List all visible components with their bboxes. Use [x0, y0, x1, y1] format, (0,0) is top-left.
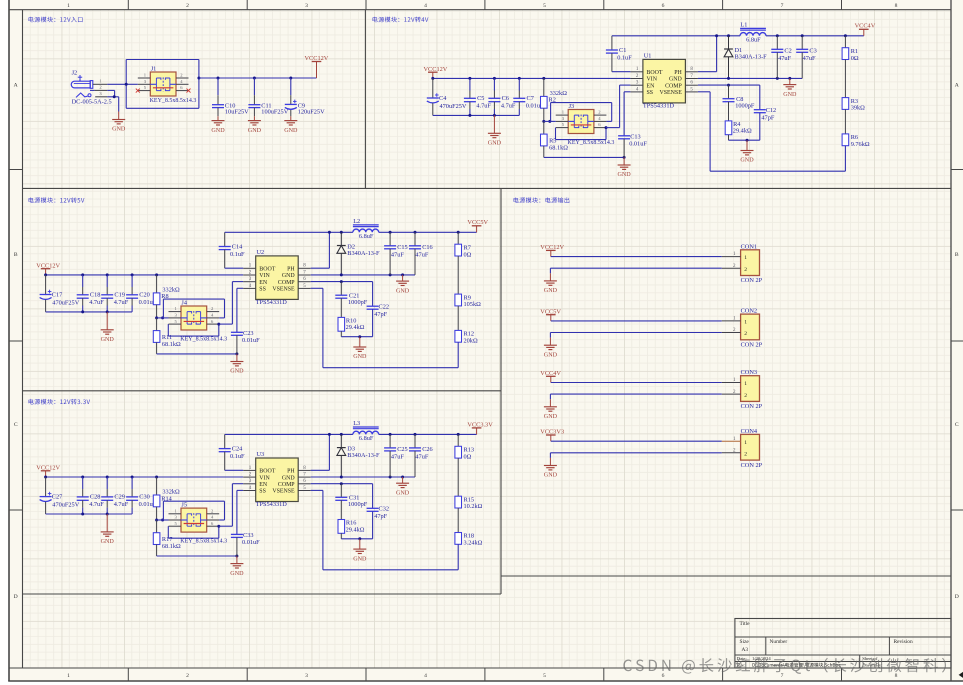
svg-text:VCC3.3V: VCC3.3V	[467, 421, 493, 428]
wire VSENSE feedback loop	[457, 342, 459, 368]
capacitor C16	[409, 232, 433, 275]
junction	[253, 77, 256, 80]
wire	[844, 109, 846, 133]
svg-text:470uF25V: 470uF25V	[52, 502, 79, 509]
power VCC12V	[36, 465, 60, 477]
junction	[217, 323, 220, 326]
svg-text:D: D	[14, 594, 18, 600]
junction	[788, 77, 791, 80]
junction	[548, 120, 551, 123]
junction	[776, 34, 779, 37]
switch J4	[169, 299, 228, 342]
svg-text:0Ω: 0Ω	[851, 55, 859, 62]
svg-text:C: C	[14, 422, 18, 428]
svg-text:2: 2	[744, 267, 747, 273]
capacitor C26	[409, 434, 433, 477]
svg-text:PH: PH	[287, 267, 295, 273]
svg-text:VCC4V: VCC4V	[855, 23, 876, 30]
svg-text:J3: J3	[569, 103, 575, 110]
svg-text:C14: C14	[232, 244, 243, 251]
svg-text:CON1: CON1	[741, 243, 757, 250]
svg-text:C2: C2	[784, 47, 791, 54]
svg-text:29.4kΩ: 29.4kΩ	[346, 526, 365, 533]
svg-text:C1: C1	[619, 47, 626, 54]
svg-text:GND: GND	[112, 127, 126, 133]
junction	[358, 335, 361, 338]
junction	[776, 77, 779, 80]
resistor R9	[455, 294, 481, 308]
svg-text:VSENSE: VSENSE	[272, 287, 295, 293]
svg-text:B340A-13-F: B340A-13-F	[347, 250, 380, 257]
svg-text:B340A-13-F: B340A-13-F	[347, 452, 380, 459]
wire PH switch-node rail	[612, 35, 740, 37]
capacitor C14	[219, 232, 245, 268]
wire COMP ground branch	[729, 139, 760, 141]
ground	[396, 275, 410, 294]
svg-text:C19: C19	[114, 292, 125, 299]
junction	[81, 273, 84, 276]
svg-text:10.2kΩ: 10.2kΩ	[464, 503, 483, 510]
svg-text:47uF: 47uF	[778, 55, 791, 62]
capacitor C10	[212, 78, 249, 116]
svg-text:B: B	[955, 252, 959, 258]
power VCC12V	[305, 55, 329, 78]
svg-text:3: 3	[305, 3, 308, 9]
wire	[844, 60, 846, 98]
svg-text:KEY_8.5x8.5x14.3: KEY_8.5x8.5x14.3	[568, 140, 615, 146]
ground	[740, 140, 754, 164]
title block	[735, 619, 951, 669]
junction	[605, 126, 608, 129]
svg-text:C20: C20	[139, 292, 150, 299]
svg-text:29.4kΩ: 29.4kΩ	[733, 128, 752, 135]
wire CON2 pin2 to ground	[550, 332, 721, 334]
junction	[328, 433, 331, 436]
wire output divider column	[457, 232, 459, 244]
wire SS net	[624, 91, 630, 93]
svg-text:KEY_8.5x8.5x14.3: KEY_8.5x8.5x14.3	[150, 98, 197, 104]
resistor R7	[455, 244, 472, 258]
wire PH switch-node rail	[225, 433, 353, 435]
junction	[389, 231, 392, 234]
wire VCC4V to CON3 pin1	[551, 382, 722, 384]
svg-text:10uF25V: 10uF25V	[225, 109, 249, 116]
op-amp U3 TPS54331D	[243, 451, 311, 508]
junction	[106, 310, 109, 313]
svg-text:0.01uF: 0.01uF	[629, 140, 647, 147]
svg-text:VSENSE: VSENSE	[272, 489, 295, 495]
svg-text:GND: GND	[669, 77, 683, 83]
svg-text:4.7uF: 4.7uF	[89, 501, 104, 508]
resistor R4	[725, 121, 752, 140]
op-amp U1 TPS54331D	[630, 52, 698, 109]
junction	[340, 280, 343, 283]
svg-text:6: 6	[662, 3, 665, 9]
svg-text:5: 5	[543, 3, 546, 9]
power VCC3V3	[540, 429, 564, 442]
wire KEY bottom loop	[555, 128, 557, 140]
ground	[101, 312, 115, 343]
svg-text:VCC5V: VCC5V	[540, 308, 561, 315]
wire VCC5V to CON2 pin1	[551, 320, 722, 322]
svg-text:GND: GND	[230, 571, 244, 577]
svg-text:C26: C26	[422, 446, 433, 453]
svg-text:BOOT: BOOT	[647, 70, 663, 76]
wire KEY J1 top loop	[126, 59, 199, 61]
capacitor C21	[335, 282, 367, 318]
junction	[358, 537, 361, 540]
svg-text:GND: GND	[396, 288, 410, 294]
resistor R5	[541, 121, 569, 157]
junction	[727, 84, 730, 87]
capacitor C9	[285, 78, 325, 116]
resistor R3	[842, 98, 865, 112]
svg-text:100uF25V: 100uF25V	[261, 109, 288, 116]
svg-text:GND: GND	[544, 473, 558, 479]
wire VCC12V input rail	[46, 274, 244, 276]
svg-text:J4: J4	[181, 299, 187, 306]
svg-text:1: 1	[744, 255, 747, 261]
junction	[155, 273, 158, 276]
wire KEY J1 bottom loop	[126, 107, 199, 109]
svg-text:29.4kΩ: 29.4kΩ	[346, 324, 365, 331]
svg-text:6: 6	[662, 673, 665, 679]
svg-text:470uF25V: 470uF25V	[440, 103, 467, 110]
svg-text:BOOT: BOOT	[259, 267, 275, 273]
svg-text:EN: EN	[259, 280, 268, 286]
svg-text:R1: R1	[851, 48, 858, 55]
ground	[248, 116, 262, 134]
wire power ground row	[311, 476, 415, 478]
capacitor C17	[40, 275, 80, 312]
wire input cap ground bus	[46, 513, 133, 515]
junction	[542, 120, 545, 123]
svg-text:C28: C28	[90, 494, 101, 501]
junction	[81, 476, 84, 479]
svg-text:VIN: VIN	[259, 273, 270, 279]
svg-text:8: 8	[895, 3, 898, 9]
power VCC12V	[424, 66, 448, 78]
junction	[44, 273, 47, 276]
svg-text:C6: C6	[502, 95, 509, 102]
wire KEY top loop	[163, 500, 224, 502]
power VCC5V	[467, 219, 488, 232]
power VCC4V	[855, 23, 876, 36]
wire VCC12V to CON1 pin1	[551, 256, 722, 258]
junction	[457, 231, 460, 234]
svg-text:R11: R11	[162, 334, 172, 341]
wire output divider column	[844, 36, 846, 48]
wire VSENSE feedback loop	[457, 544, 459, 570]
wire CON3 pin2 to ground	[550, 393, 721, 395]
svg-text:SS: SS	[259, 489, 266, 495]
svg-text:68.1kΩ: 68.1kΩ	[162, 341, 181, 348]
ground	[353, 539, 367, 563]
svg-text:4.7uF: 4.7uF	[476, 102, 491, 109]
svg-text:Size: Size	[740, 639, 750, 645]
svg-text:470uF25V: 470uF25V	[52, 300, 79, 307]
resistor R15	[455, 496, 483, 510]
svg-text:47pF: 47pF	[374, 311, 387, 318]
svg-text:L1: L1	[740, 21, 747, 28]
svg-text:CON 2P: CON 2P	[741, 403, 763, 410]
svg-text:C29: C29	[114, 494, 125, 501]
svg-text:DC-005-5A-2.5: DC-005-5A-2.5	[72, 99, 112, 106]
wire BOOT net	[225, 469, 244, 471]
junction	[542, 77, 545, 80]
svg-text:120uF25V: 120uF25V	[298, 109, 325, 116]
svg-text:2: 2	[186, 673, 189, 679]
junction	[289, 77, 292, 80]
capacitor C28	[77, 477, 105, 514]
svg-text:CON 2P: CON 2P	[741, 277, 763, 284]
svg-text:KEY_8.5x8.5x14.3: KEY_8.5x8.5x14.3	[180, 336, 227, 342]
svg-text:6.8uF: 6.8uF	[359, 233, 374, 240]
connector CON3	[722, 369, 763, 410]
junction	[414, 231, 417, 234]
wire SS net	[237, 287, 243, 289]
junction	[131, 273, 134, 276]
svg-text:C18: C18	[90, 292, 101, 299]
ground	[211, 116, 225, 134]
svg-text:C25: C25	[397, 446, 408, 453]
capacitor C27	[40, 477, 80, 514]
power VCC3.3V	[467, 421, 493, 434]
svg-text:4: 4	[424, 673, 427, 679]
wire power ground row	[698, 77, 802, 79]
watermark	[623, 658, 946, 674]
wire EN net	[219, 525, 233, 527]
svg-text:Revision: Revision	[894, 639, 913, 645]
wire PH switch-node rail	[225, 231, 353, 233]
svg-text:TPS54331D: TPS54331D	[256, 299, 288, 306]
ground	[396, 477, 410, 496]
capacitor C20	[126, 275, 157, 312]
module titles	[29, 17, 83, 23]
capacitor C1	[606, 36, 632, 72]
resistor R2	[541, 78, 568, 121]
wire output divider column	[457, 434, 459, 446]
svg-text:J2: J2	[72, 70, 78, 77]
svg-text:C15: C15	[397, 244, 408, 251]
svg-text:BOOT: BOOT	[259, 469, 275, 475]
svg-text:8: 8	[895, 673, 898, 679]
wire input cap ground bus	[46, 311, 133, 313]
svg-text:EN: EN	[647, 83, 656, 89]
svg-text:GND: GND	[488, 141, 502, 147]
wire SS/enable ground bus	[157, 555, 237, 557]
svg-text:GND: GND	[284, 128, 298, 134]
wire KEY bottom loop	[167, 526, 169, 538]
capacitor C11	[248, 78, 288, 116]
wire SS/enable ground bus	[544, 156, 624, 158]
svg-text:5: 5	[543, 673, 546, 679]
svg-text:GND: GND	[544, 352, 558, 358]
svg-text:R5: R5	[549, 137, 556, 144]
connector CON1	[722, 243, 763, 284]
junction	[468, 114, 471, 117]
wire VCC12V input rail	[46, 476, 244, 478]
svg-text:L3: L3	[353, 420, 360, 427]
svg-text:7: 7	[781, 673, 784, 679]
junction	[518, 77, 521, 80]
svg-text:SS: SS	[647, 90, 654, 96]
wire power ground row	[311, 274, 415, 276]
svg-text:L2: L2	[353, 218, 360, 225]
junction	[389, 433, 392, 436]
wire CON1 pin2 to ground	[550, 267, 721, 269]
svg-text:4: 4	[424, 3, 427, 9]
junction	[623, 156, 626, 159]
wire	[457, 458, 459, 496]
no-ERC marks on J1 pins 5,6	[136, 89, 140, 93]
svg-text:C24: C24	[232, 446, 243, 453]
svg-text:2: 2	[744, 393, 747, 399]
ground	[544, 458, 558, 479]
svg-text:4.7uF: 4.7uF	[114, 501, 129, 508]
svg-text:SS: SS	[259, 287, 266, 293]
svg-text:KEY_8.5x8.5x14.3: KEY_8.5x8.5x14.3	[180, 539, 227, 545]
capacitor C3	[796, 36, 817, 79]
junction	[217, 525, 220, 528]
svg-text:Drawn By:: Drawn By:	[862, 663, 882, 668]
svg-text:VIN: VIN	[647, 77, 658, 83]
svg-text:C22: C22	[379, 303, 390, 310]
capacitor C18	[77, 275, 105, 312]
svg-text:0.1uF: 0.1uF	[617, 54, 632, 61]
wire COMP net	[311, 281, 373, 283]
capacitor C6	[488, 78, 516, 115]
ground	[783, 78, 797, 97]
svg-text:3: 3	[305, 673, 308, 679]
svg-text:47uF: 47uF	[415, 454, 428, 461]
svg-text:TPS54331D: TPS54331D	[643, 102, 675, 109]
capacitor C19	[101, 275, 129, 312]
junction	[217, 77, 220, 80]
svg-text:TPS54331D: TPS54331D	[256, 501, 288, 508]
wire CON4 pin2 to ground	[550, 452, 721, 454]
svg-text:GND: GND	[353, 556, 367, 562]
svg-text:U1: U1	[644, 52, 652, 59]
wire SS/enable ground bus	[157, 353, 237, 355]
junction	[106, 273, 109, 276]
junction	[106, 513, 109, 516]
svg-text:47pF: 47pF	[761, 114, 774, 121]
svg-text:CON4: CON4	[741, 428, 758, 435]
inductor L3	[353, 420, 379, 442]
frame reference ticks	[127, 0, 129, 10]
resistor R12	[455, 330, 478, 344]
wire KEY top loop	[551, 102, 612, 104]
svg-text:1000pF: 1000pF	[735, 103, 755, 110]
junction	[493, 114, 496, 117]
wire COMP net	[311, 483, 373, 485]
svg-text:C3: C3	[809, 47, 816, 54]
svg-text:GND: GND	[248, 128, 262, 134]
wire VSENSE feedback loop	[844, 146, 846, 172]
resistor R18	[455, 533, 483, 547]
junction	[155, 476, 158, 479]
svg-text:1: 1	[67, 3, 70, 9]
junction	[235, 555, 238, 558]
svg-text:GND: GND	[544, 288, 558, 294]
junction	[125, 83, 128, 86]
svg-text:47uF: 47uF	[391, 252, 404, 259]
wire	[457, 508, 459, 533]
capacitor C5	[464, 78, 492, 115]
svg-text:C17: C17	[52, 291, 63, 298]
ground	[353, 337, 367, 361]
wire COMP ground branch	[341, 538, 372, 540]
junction	[414, 433, 417, 436]
svg-text:COMP: COMP	[665, 83, 682, 89]
diode D1	[724, 36, 767, 79]
power VCC12V	[36, 263, 60, 275]
svg-text:6.8uF: 6.8uF	[746, 36, 761, 43]
capacitor C24	[219, 434, 245, 470]
svg-text:CON 2P: CON 2P	[741, 342, 763, 349]
module partition lines	[364, 10, 366, 189]
frame border	[8, 0, 10, 681]
svg-text:0.1uF: 0.1uF	[230, 251, 245, 258]
svg-text:105kΩ: 105kΩ	[464, 301, 482, 308]
junction	[155, 519, 158, 522]
svg-text:0.01uF: 0.01uF	[242, 539, 260, 546]
junction	[715, 34, 718, 37]
svg-text:J5: J5	[181, 501, 187, 508]
ground	[101, 514, 115, 545]
junction	[155, 316, 158, 319]
svg-text:VSENSE: VSENSE	[660, 90, 683, 96]
svg-text:C: C	[955, 422, 959, 428]
junction	[401, 476, 404, 479]
connector CON2	[722, 308, 763, 349]
svg-text:GND: GND	[396, 490, 410, 496]
resistor R6	[842, 134, 870, 148]
junction	[235, 352, 238, 355]
capacitor C25	[384, 434, 408, 477]
svg-text:C12: C12	[766, 107, 777, 114]
wire BOOT net	[612, 71, 631, 73]
junction	[844, 34, 847, 37]
capacitor C4	[427, 78, 467, 115]
svg-text:VCC12V: VCC12V	[305, 55, 329, 62]
junction	[328, 231, 331, 234]
junction	[106, 476, 109, 479]
diode D2	[337, 232, 380, 275]
resistor R10	[338, 317, 365, 336]
capacitor C7	[513, 78, 544, 115]
svg-text:U2: U2	[257, 249, 265, 256]
junction	[389, 476, 392, 479]
svg-text:VCC12V: VCC12V	[540, 244, 564, 251]
svg-text:39kΩ: 39kΩ	[851, 105, 865, 112]
wire EN net	[219, 323, 233, 325]
junction	[746, 139, 749, 142]
svg-text:VCC5V: VCC5V	[467, 219, 488, 226]
svg-text:A: A	[955, 83, 959, 89]
wire input cap ground bus	[433, 114, 520, 116]
wire	[457, 306, 459, 331]
wire COMP ground branch	[341, 336, 372, 338]
svg-text:J1: J1	[151, 65, 157, 72]
svg-text:0Ω: 0Ω	[464, 454, 472, 461]
svg-text:6.8uF: 6.8uF	[359, 435, 374, 442]
ground	[488, 115, 502, 146]
capacitor C13	[618, 92, 647, 158]
svg-text:9.76kΩ: 9.76kΩ	[851, 141, 870, 148]
svg-text:47uF: 47uF	[391, 454, 404, 461]
